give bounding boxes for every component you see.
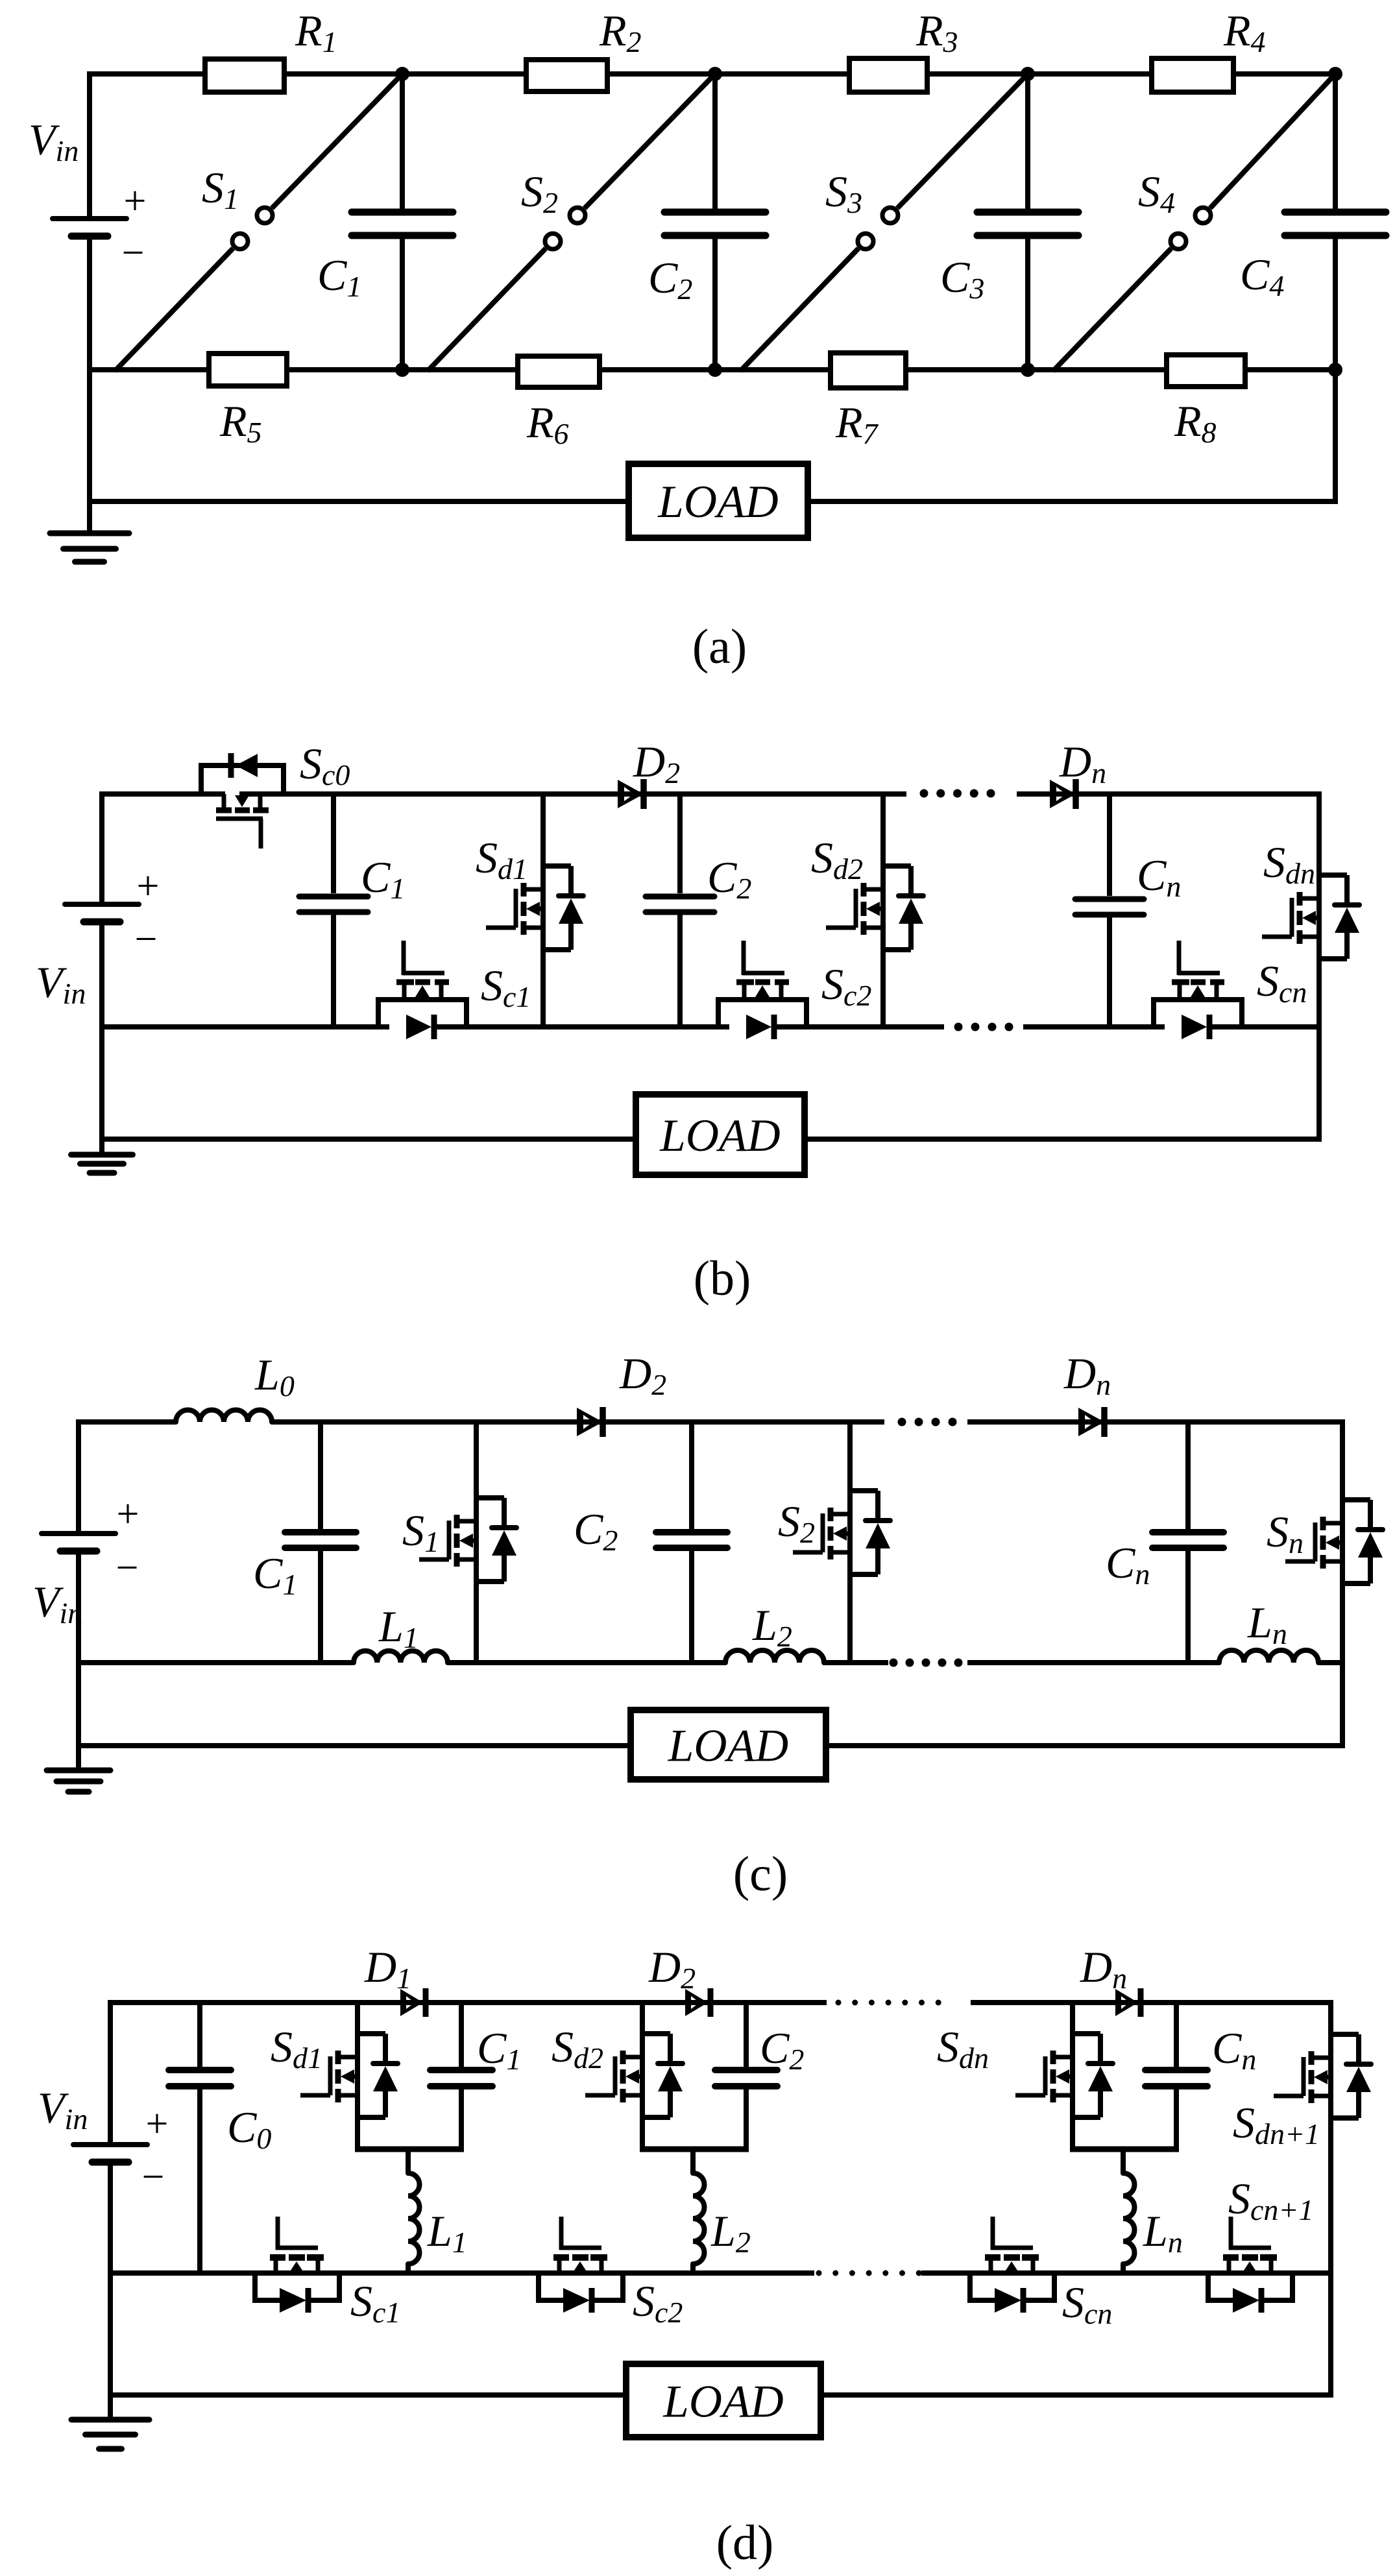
battery Vin (a) [53, 219, 127, 236]
ground (b) [71, 1155, 133, 1173]
wire: Ln (d) stem bottom [1121, 2264, 1126, 2273]
capacitor C2 (d) [715, 2070, 777, 2086]
resistor R8 [1167, 355, 1245, 387]
ellipsis dots middle (c) [890, 1659, 963, 1667]
switch S3 [740, 74, 1028, 371]
ellipsis dots top (d) [836, 2000, 941, 2006]
mosfet Sdn [1015, 2034, 1113, 2117]
wire: panel-c bottom rail right segment [826, 1743, 1342, 1748]
switch S2 [428, 74, 715, 371]
wire: C1 (c) stem [318, 1422, 323, 1663]
wire: Cn (c) stem [1185, 1422, 1191, 1663]
wire: panel-b right vertical (Sdn) [1316, 791, 1322, 1142]
diode Dn (b) [1050, 779, 1076, 809]
wire: C0 stem [197, 2003, 202, 2273]
wire: C2 (c) stem [689, 1422, 694, 1663]
mosfet Sdn [1262, 875, 1359, 959]
mosfet Scn+1 [1206, 2217, 1295, 2313]
capacitor Cn (c) [1152, 1532, 1224, 1548]
wire: Cn (d) stem [1174, 2003, 1179, 2152]
battery Vin (b) [65, 904, 139, 922]
mosfet Sdn+1 [1274, 2034, 1371, 2118]
svg-text:−: − [142, 2155, 165, 2199]
wire: C1 (a) stem [400, 74, 405, 370]
capacitor Cn (b) [1075, 899, 1144, 915]
capacitor C0 [169, 2070, 231, 2086]
wire: L1 (d) stem bottom [406, 2264, 411, 2273]
svg-text:(a): (a) [692, 620, 747, 674]
wire: C4 (a) stem [1333, 74, 1338, 370]
svg-text:LOAD: LOAD [668, 1721, 788, 1772]
wire: panel-c middle rail segments [79, 1660, 1342, 1665]
svg-text:−: − [116, 1546, 139, 1590]
mosfet Sd2 [826, 866, 923, 950]
mosfet Sc0 [199, 753, 286, 849]
svg-text:−: − [122, 231, 145, 275]
battery Vin (d) [73, 2145, 147, 2162]
wire: C1 (d) stem [459, 2003, 464, 2152]
LOAD box (a) [629, 464, 808, 538]
wire: Sd2 main vertical [640, 2003, 645, 2152]
wire: S1 (c) main vertical [474, 1422, 479, 1663]
resistor R5 [209, 354, 287, 386]
ellipsis dots middle (b) [954, 1023, 1013, 1031]
inductor Ln (d) [1123, 2173, 1135, 2264]
svg-text:(d): (d) [716, 2516, 774, 2570]
ground (a) [50, 533, 129, 562]
resistor R4 [1152, 58, 1233, 92]
svg-text:LOAD: LOAD [659, 1111, 780, 1161]
inductor L2 (c) [725, 1650, 824, 1663]
resistor R7 [831, 353, 906, 388]
resistor R3 [849, 58, 927, 92]
ground (c) [47, 1770, 110, 1792]
wire: L2 (d) stem bottom [690, 2264, 696, 2273]
diode D2 (b) [618, 779, 644, 809]
wire: L1 (d) stem top [406, 2149, 411, 2173]
mosfet Sd1 [486, 866, 583, 950]
svg-text:LOAD: LOAD [657, 477, 778, 527]
switch S4 [1053, 74, 1335, 371]
mosfet Sn (c) [1285, 1500, 1383, 1583]
wire: node bar below Sd2/C2 [640, 2147, 749, 2152]
wire: S2 (c) main vertical [847, 1422, 853, 1663]
switch S1 [115, 74, 402, 371]
wire: panel-a right vertical below C4 [1333, 370, 1338, 504]
wire: Cn (b) stem [1107, 794, 1112, 1027]
svg-text:+: + [117, 1492, 139, 1536]
mosfet Sd2 [585, 2034, 683, 2117]
LOAD box (b) [636, 1094, 805, 1175]
diode D2 (c) [577, 1407, 603, 1437]
wire: panel-b left vertical [99, 791, 104, 1155]
mosfet Sc1 [252, 2217, 342, 2313]
mosfet Scn [1151, 941, 1244, 1039]
wire: C1 (b) stem [331, 794, 336, 1027]
svg-text:(b): (b) [694, 1251, 751, 1306]
wire: panel-c right vertical (Sn) [1340, 1419, 1345, 1748]
resistor R1 [205, 59, 284, 92]
junction dots (a) [395, 67, 1342, 377]
diode D1 [400, 1988, 426, 2017]
mosfet Sd1 [300, 2034, 398, 2117]
mosfet Sc2 [536, 2217, 625, 2313]
inductor L1 (c) [354, 1651, 448, 1663]
mosfet S2 (c) [793, 1491, 890, 1574]
capacitor C2 (c) [656, 1532, 727, 1548]
LOAD box (d) [626, 2364, 821, 2437]
capacitor C1 (a) [352, 212, 453, 235]
svg-text:(c): (c) [733, 1847, 788, 1901]
battery Vin (c) [42, 1534, 115, 1551]
wire: Sd1 main vertical [540, 794, 546, 1027]
ellipsis dots bottom (d) [816, 2270, 922, 2276]
mosfet S1 (c) [419, 1498, 516, 1582]
wire: panel-a left vertical (Vin branch) [87, 71, 92, 533]
diode D2 [685, 1988, 710, 2017]
wire: panel-d right vertical (Sdn+1) [1328, 2003, 1333, 2398]
capacitor C1 (c) [285, 1532, 356, 1548]
wire: panel-d load rail right segment [821, 2392, 1333, 2398]
LOAD box (c) [631, 1710, 826, 1779]
wire: panel-b bottom rail left segment [102, 1137, 636, 1142]
capacitor C3 (a) [977, 212, 1078, 235]
diode Dn [1115, 1988, 1141, 2017]
ground (d) [71, 2420, 149, 2449]
wire: panel-a middle rail [90, 367, 1335, 372]
wire: panel-d load rail left segment [110, 2392, 626, 2398]
wire: C2 (b) stem [677, 794, 683, 1027]
wire: panel-a top rail [90, 71, 1335, 77]
diode Dn (c) [1078, 1407, 1104, 1437]
wire: panel-b bottom rail right segment [805, 1137, 1319, 1142]
resistor R6 [518, 356, 600, 387]
wire: L2 (d) stem top [690, 2149, 696, 2173]
inductor Ln (c) [1219, 1650, 1318, 1663]
wire: panel-d top rail segments [110, 2000, 1333, 2005]
capacitor Cn (d) [1145, 2070, 1207, 2086]
inductor L1 (d) [408, 2173, 420, 2264]
wire: panel-d bottom rail segments [110, 2270, 1331, 2276]
wire: C2 (d) stem [744, 2003, 749, 2152]
capacitor C1 (b) [299, 897, 368, 912]
capacitor C2 (a) [664, 212, 766, 235]
capacitor C1 (d) [430, 2070, 492, 2086]
wire: C2 (a) stem [712, 74, 718, 370]
mosfet Sc1 [376, 941, 469, 1039]
ellipsis dots top (b) [920, 789, 995, 798]
capacitor C2 (b) [646, 897, 714, 912]
wire: Ln (d) stem top [1121, 2149, 1126, 2173]
mosfet Sc2 [716, 941, 809, 1039]
wire: Sdn main vertical [1070, 2003, 1075, 2152]
resistor R2 [526, 60, 607, 91]
wire: C3 (a) stem [1025, 74, 1030, 370]
svg-text:−: − [135, 917, 158, 961]
inductor L2 (d) [693, 2173, 705, 2264]
svg-text:+: + [146, 2102, 169, 2146]
wire: panel-a bottom rail right segment [808, 499, 1335, 504]
wire: panel-a bottom rail left segment [90, 499, 629, 504]
svg-text:+: + [137, 864, 160, 908]
wire: panel-c bottom rail left segment [79, 1743, 631, 1748]
wire: node bar below Sdn/Cn [1070, 2147, 1179, 2152]
wire: panel-b top rail segments [102, 791, 1319, 797]
wire: panel-b middle rail segments [102, 1024, 1319, 1029]
mosfet Scn [967, 2217, 1057, 2313]
wire: panel-c top rail segments [79, 1419, 1342, 1425]
inductor L0 [176, 1410, 272, 1423]
ellipsis dots top (c) [898, 1418, 957, 1426]
svg-text:LOAD: LOAD [662, 2377, 783, 2427]
wire: Sd2 main vertical [880, 794, 886, 1027]
capacitor C4 (a) [1285, 212, 1386, 235]
svg-text:+: + [124, 179, 147, 223]
wire: panel-d left vertical [108, 2000, 113, 2420]
wire: panel-c left vertical [76, 1419, 81, 1770]
wire: Sd1 main vertical [355, 2003, 360, 2152]
wire: node bar below Sd1/C1 [355, 2147, 464, 2152]
